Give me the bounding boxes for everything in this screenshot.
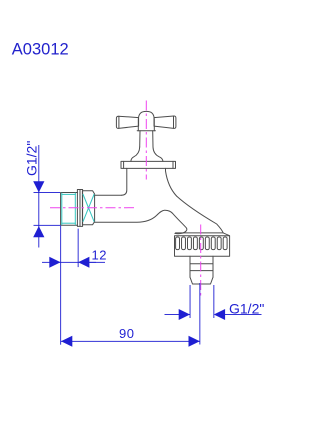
handle left arm — [116, 116, 138, 128]
thread crest lines (cyan) — [61, 193, 63, 225]
bonnet flange — [121, 161, 176, 168]
dimension G1/2 right — [165, 285, 265, 320]
collar ring — [77, 190, 82, 227]
svg-text:G1/2": G1/2" — [229, 300, 264, 316]
bonnet bell — [131, 147, 163, 161]
threaded inlet pipe — [61, 193, 78, 226]
centerline vertical handle axis — [145, 101, 147, 180]
hose barb — [190, 256, 213, 277]
handle neck — [140, 131, 153, 147]
dimension G1/2 left — [24, 141, 60, 248]
svg-text:A03012: A03012 — [12, 41, 69, 59]
body tube top — [95, 194, 122, 196]
knurled nut — [175, 236, 230, 257]
spout upper edge — [177, 196, 230, 236]
knurl ribs — [176, 237, 180, 250]
handle right arm — [154, 116, 176, 128]
svg-text:12: 12 — [92, 247, 107, 262]
body column — [122, 168, 127, 195]
handle hub dome — [138, 111, 154, 130]
outlet flare bottom line — [176, 232, 224, 234]
dimension 12 — [42, 225, 107, 344]
handle base plate — [137, 130, 155, 132]
valve body hub — [82, 191, 94, 225]
svg-text:90: 90 — [119, 326, 134, 341]
thread cross X (cyan) — [83, 194, 94, 222]
svg-text:G1/2": G1/2" — [24, 141, 40, 176]
dimension 90 — [61, 283, 200, 347]
centerline vertical outlet axis — [200, 225, 202, 297]
body tube bottom and spout lower edge — [95, 210, 187, 233]
centerline horizontal inlet axis — [50, 207, 137, 209]
